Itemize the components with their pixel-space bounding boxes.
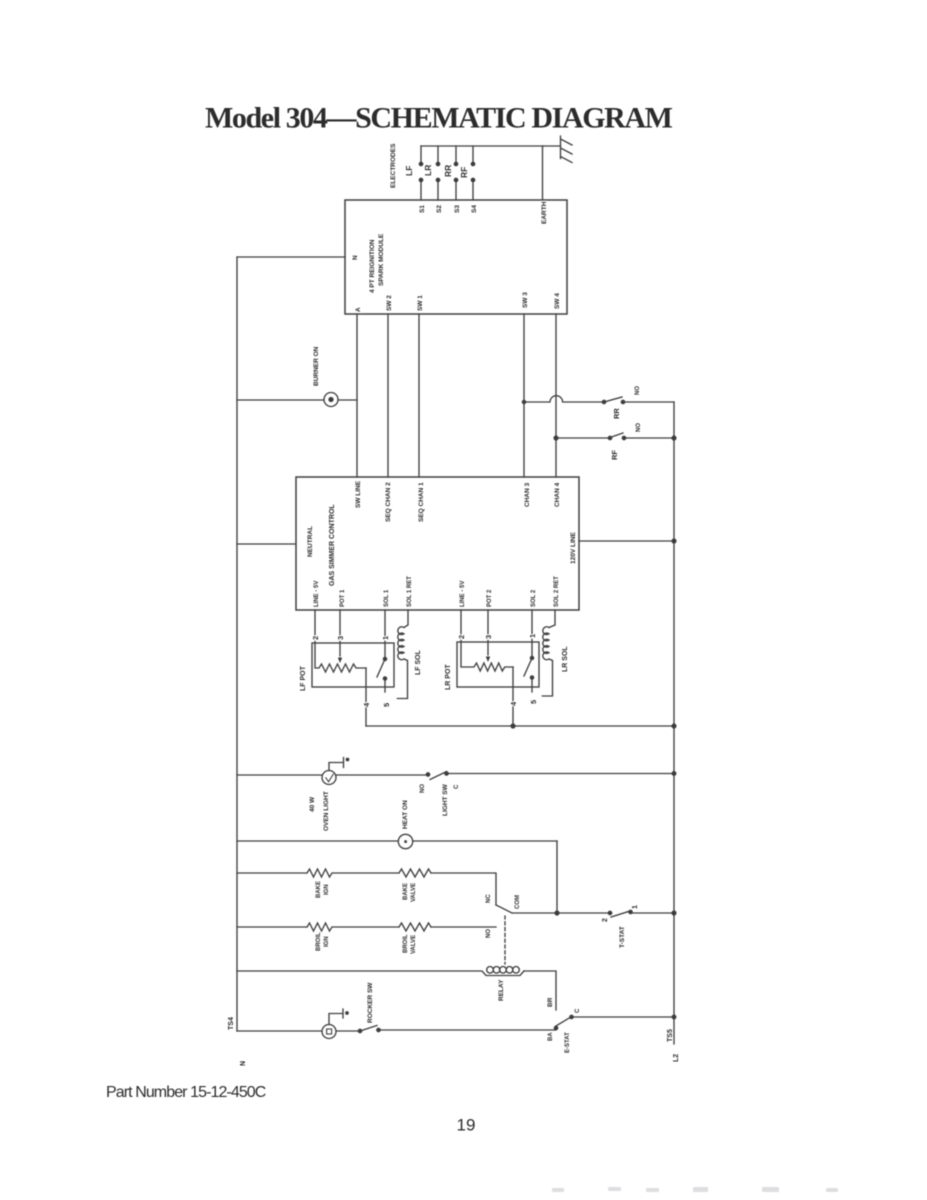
svg-text:1: 1 [528, 634, 537, 638]
node: spark gap dots S2 [436, 178, 439, 181]
svg-text:S1: S1 [419, 205, 426, 213]
svg-text:NO: NO [636, 423, 642, 432]
wire: electrode S4 lead with spark gap [472, 146, 474, 200]
wire: heat-on drop to relay common [556, 841, 558, 913]
wire: broil row middle [333, 926, 399, 928]
svg-text:T-STAT: T-STAT [619, 926, 626, 948]
svg-text:3: 3 [484, 635, 493, 639]
wire: RF switch feed from SW4 wire [554, 436, 558, 440]
op-amp U2: gas simmer control box [296, 477, 579, 610]
svg-text:BROIL: BROIL [316, 932, 322, 951]
svg-text:C: C [454, 784, 460, 789]
box: LR POT [457, 642, 539, 687]
wire: pin SW 4 down to CHAN 4 [555, 314, 557, 477]
svg-text:1: 1 [381, 636, 390, 640]
svg-text:Model 304—SCHEMATIC DIAGRAM: Model 304—SCHEMATIC DIAGRAM [205, 102, 673, 135]
switch T-STAT: contacts and blade [608, 911, 611, 914]
svg-text:5: 5 [382, 703, 391, 707]
lamp: rocker switch pilot [322, 1025, 336, 1039]
switch: LF pot switch pin1 to pin5 [384, 643, 386, 658]
wire: rocker switch to E-STAT [379, 1029, 557, 1031]
node: wiper arrowhead [338, 658, 342, 664]
svg-text:N: N [352, 255, 359, 260]
svg-text:2: 2 [602, 918, 609, 922]
wire: bottom rocker row [237, 1030, 359, 1032]
svg-text:BAKE: BAKE [316, 881, 322, 898]
svg-text:2: 2 [311, 636, 320, 640]
svg-text:Part Number 15-12-450C: Part Number 15-12-450C [106, 1084, 266, 1101]
wire: electrode top bus to earth [421, 145, 561, 147]
svg-text:40 W: 40 W [309, 796, 316, 812]
node: LR wiper arrowhead [486, 657, 490, 663]
svg-text:POT 1: POT 1 [340, 589, 346, 607]
wire: T-STAT to right bus [631, 912, 675, 914]
svg-text:HEAT ON: HEAT ON [402, 800, 409, 829]
svg-text:E-STAT: E-STAT [565, 1032, 571, 1053]
wire: left vertical neutral bus N [236, 257, 238, 1031]
svg-text:CHAN 4: CHAN 4 [554, 482, 561, 507]
wire: EARTH pin drop into module [542, 146, 544, 200]
wire: electrode S2 lead with spark gap [437, 146, 439, 200]
wire: RR switch feed from SW3 with hop over SW4 wire [524, 396, 603, 402]
box: LF POT [312, 643, 394, 687]
node: spark gap dots S1 [419, 178, 422, 181]
ground: earth chassis symbol [561, 136, 573, 163]
resistor: BROIL IGN [307, 923, 332, 931]
svg-text:LR POT: LR POT [445, 664, 452, 690]
svg-text:SPARK MODULE: SPARK MODULE [378, 233, 385, 286]
svg-text:LF POT: LF POT [300, 665, 307, 691]
svg-text:3: 3 [336, 636, 345, 640]
svg-text:C: C [575, 1008, 581, 1013]
node: T-STAT line joins right bus [672, 911, 676, 915]
svg-text:LF SOL: LF SOL [415, 649, 422, 675]
wire: electrode S1 lead with spark gap [420, 146, 422, 200]
wire: pin SW 3 down to CHAN 3 [523, 314, 525, 477]
svg-text:RF: RF [610, 450, 619, 460]
wire: LINE-5V to LR pot pin 2 [460, 610, 462, 642]
wire: bake row to relay NC contact [431, 873, 496, 905]
switch: ROCKER SW contacts and blade [358, 1029, 361, 1032]
svg-text:EARTH: EARTH [541, 201, 548, 224]
svg-text:COM: COM [515, 895, 521, 909]
svg-text:GAS SIMMER CONTROL: GAS SIMMER CONTROL [329, 504, 336, 586]
switch: LIGHT SW contacts and blade [426, 773, 429, 776]
svg-text:VALVE: VALVE [411, 883, 417, 902]
svg-text:IGN: IGN [324, 884, 330, 895]
resistor: BROIL VALVE [399, 923, 431, 931]
svg-text:RF: RF [459, 167, 469, 178]
svg-text:A: A [355, 307, 362, 312]
svg-text:S4: S4 [471, 205, 478, 213]
switch: relay blade NC to common [496, 905, 512, 913]
wire: broil row to relay NO contact [431, 926, 496, 928]
svg-text:LR SOL: LR SOL [562, 646, 569, 672]
wire: RR switch to right line bus [623, 401, 674, 403]
wire: LR pot pin 4 down to pot bus [512, 667, 514, 726]
wire: bake row left [237, 872, 307, 874]
svg-text:N: N [240, 1061, 247, 1066]
faint bleed-through strip at bottom [552, 1187, 838, 1192]
inductor LF SOL coil [398, 627, 404, 660]
wire: LF SOL coil to pot pin 5 [397, 659, 407, 699]
svg-text:SOL 1: SOL 1 [384, 589, 390, 607]
svg-text:SW LINE: SW LINE [355, 480, 362, 508]
node: light line joins right bus [672, 772, 676, 776]
switch RR: contacts and blade [602, 400, 605, 403]
svg-text:SW 1: SW 1 [417, 295, 424, 311]
wire: POT 1 to LF pot pin 3 [339, 610, 341, 643]
svg-text:RELAY: RELAY [498, 979, 505, 1001]
wire: light switch to right bus [447, 773, 675, 775]
svg-text:SEQ CHAN 2: SEQ CHAN 2 [385, 482, 392, 522]
lamp: OVEN LIGHT 40W [322, 771, 336, 785]
svg-text:BURNER ON: BURNER ON [313, 346, 320, 386]
svg-text:ROCKER SW: ROCKER SW [367, 982, 374, 1023]
svg-text:120V LINE: 120V LINE [570, 532, 577, 564]
wire: SOL 1 to LF pot pin 1 [384, 610, 386, 643]
svg-text:BA: BA [548, 1032, 554, 1041]
svg-text:ELECTRODES: ELECTRODES [390, 143, 397, 188]
node: spark gap dots S3 [454, 178, 457, 181]
svg-text:4 PT REIGNITION: 4 PT REIGNITION [369, 239, 376, 293]
svg-text:2: 2 [457, 635, 466, 639]
svg-text:L2: L2 [673, 1054, 680, 1062]
node: pot bus joins right bus [672, 724, 676, 728]
wire: POT 2 to LR pot pin 3 [487, 610, 489, 642]
wire: right vertical 120V line bus [673, 402, 675, 1044]
wire: relay mechanical link (dashed) [504, 916, 506, 964]
wire: LR pot wiper from pin 3 [487, 642, 489, 655]
wire: bake row middle [333, 872, 399, 874]
svg-text:LINE - 5V: LINE - 5V [460, 581, 466, 607]
wire: relay coil to BR drop [524, 971, 556, 1010]
svg-text:SOL 2 RET: SOL 2 RET [554, 576, 560, 607]
wire: LINE-5V to LF pot pin 2 [314, 610, 316, 643]
wire: NEUTRAL pin to left bus [237, 543, 296, 545]
wire: LF pot wiper from pin 3 [339, 643, 341, 656]
svg-text:RR: RR [612, 408, 621, 419]
wire: SOL 1 RET to LF SOL coil [404, 610, 408, 628]
inductor: RELAY coil [487, 967, 494, 974]
resistor: BAKE VALVE [399, 869, 431, 877]
svg-text:S3: S3 [454, 205, 461, 213]
svg-text:SOL 1 RET: SOL 1 RET [407, 576, 413, 607]
svg-text:RR: RR [443, 165, 453, 177]
svg-text:SEQ CHAN 1: SEQ CHAN 1 [418, 482, 425, 522]
svg-text:SW 2: SW 2 [386, 295, 393, 311]
svg-text:NC: NC [486, 894, 492, 903]
svg-text:19: 19 [457, 1116, 476, 1135]
node: LR pin 4 junction on pot bus [511, 724, 515, 728]
wire: SOL 2 RET to LR SOL coil [549, 610, 555, 628]
wire: pin A of spark module down to burner lamp line and SW LINE [356, 314, 358, 477]
svg-text:S2: S2 [436, 205, 443, 213]
svg-text:BAKE: BAKE [403, 883, 409, 900]
svg-text:1: 1 [632, 905, 639, 909]
wire: N pin of spark module to left neutral bus [237, 256, 345, 258]
svg-text:NO: NO [486, 929, 492, 938]
wire: oven light ground curl [329, 758, 344, 771]
inductor LR SOL coil [543, 627, 549, 660]
node: RR line joins SW3 wire [522, 400, 525, 403]
wire: LF pot pin 5 down [384, 679, 386, 693]
svg-text:POT 2: POT 2 [487, 589, 493, 607]
node: heat-on joins relay common [555, 911, 559, 915]
switch E-STAT: blade BA to C [554, 1026, 557, 1029]
wire: pin SW 1 down to SEQ CHAN 1 [418, 314, 420, 477]
svg-text:NO: NO [635, 386, 641, 395]
node: E-STAT line joins TS5 bus [672, 1015, 676, 1019]
wire: relay coil row left [237, 971, 524, 976]
svg-text:BROIL: BROIL [403, 934, 409, 953]
svg-text:VALVE: VALVE [411, 935, 417, 954]
svg-text:NEUTRAL: NEUTRAL [307, 526, 314, 557]
switch RF: contacts and blade [608, 436, 611, 439]
wire: LR pot pin 5 down [531, 678, 533, 693]
wire: LF pot pin 4 down to pot bus [365, 668, 367, 726]
node: RF joins right bus [672, 436, 676, 440]
wire: E-STAT C contact to TS5 [572, 1016, 675, 1018]
wire: pin SW 2 down to SEQ CHAN 2 [387, 314, 389, 477]
wire: electrode S3 lead with spark gap [455, 146, 457, 200]
svg-text:SW 3: SW 3 [522, 292, 529, 308]
wire: pot common bus to right bus [366, 725, 674, 727]
switch: LR pot switch pin1 to pin5 [531, 642, 533, 657]
svg-text:5: 5 [529, 700, 538, 704]
wire: LR SOL coil to pot pin 5 [542, 659, 552, 696]
wire: oven light row [237, 774, 428, 776]
op-amp U1: 4 PT reignition spark module box [345, 200, 567, 314]
svg-text:SOL 2: SOL 2 [531, 589, 537, 607]
svg-text:LR: LR [423, 165, 433, 176]
resistor: LR pot element [461, 642, 513, 671]
wire: broil row left [237, 926, 307, 928]
svg-text:BR: BR [547, 997, 554, 1007]
wire: SOL 2 to LR pot pin 1 [531, 610, 533, 642]
svg-text:TS4: TS4 [228, 1017, 235, 1030]
svg-text:LINE - 5V: LINE - 5V [314, 581, 320, 607]
wire: relay common to T-STAT [512, 912, 610, 914]
wire: burner-on lamp row [237, 399, 357, 401]
svg-text:CHAN 3: CHAN 3 [524, 482, 531, 507]
lamp: BURNER ON indicator [324, 393, 338, 407]
resistor: LF pot element [315, 643, 366, 672]
svg-text:IGN: IGN [324, 936, 330, 947]
wire: rocker lamp ground curl [329, 1009, 343, 1025]
svg-text:SW 4: SW 4 [554, 293, 561, 309]
svg-text:TS5: TS5 [667, 1029, 674, 1042]
node: 120V joins right bus [672, 539, 676, 543]
svg-text:OVEN LIGHT: OVEN LIGHT [323, 791, 330, 831]
node: spark gap dots S4 [471, 178, 474, 181]
resistor: BAKE IGN [307, 869, 332, 877]
svg-text:LF: LF [404, 166, 414, 176]
svg-text:NO: NO [420, 784, 426, 793]
lamp: HEAT ON indicator [398, 834, 412, 848]
svg-text:LIGHT SW: LIGHT SW [442, 783, 449, 816]
wire: 120V LINE pin to right bus [579, 540, 674, 542]
wire: heat-on lamp row [237, 840, 557, 842]
wire: RF switch to right bus [624, 437, 674, 439]
